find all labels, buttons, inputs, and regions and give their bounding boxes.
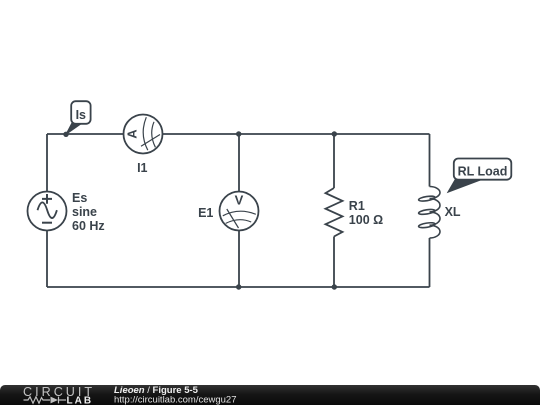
wire resistor branch lower <box>333 237 335 288</box>
junction node dot top resistor <box>332 131 337 136</box>
junction node dot bottom voltmeter <box>236 284 241 289</box>
sine wave inside source <box>38 202 57 218</box>
inductor XL coil <box>418 187 440 239</box>
wire voltmeter branch upper <box>238 134 240 192</box>
wire inductor branch lower <box>429 238 431 287</box>
junction node dot bottom resistor <box>332 284 337 289</box>
node dot for Is flag <box>63 132 68 137</box>
wire voltmeter branch lower <box>238 231 240 288</box>
wire top-right horizontal <box>163 133 430 135</box>
minus sign <box>42 222 52 224</box>
wire left branch upper <box>46 134 48 192</box>
plus sign <box>42 194 52 204</box>
wire left branch lower <box>46 231 48 288</box>
flag RL Load tail <box>448 179 483 192</box>
flag Is box <box>71 101 90 124</box>
junction node dot top voltmeter <box>236 131 241 136</box>
wire top-left horizontal <box>47 133 124 135</box>
voltmeter E1 <box>220 192 259 231</box>
flag RL Load box <box>454 159 512 180</box>
ammeter I1 <box>124 115 163 154</box>
svg-text:LAB: LAB <box>67 396 94 405</box>
footer bar <box>0 385 540 405</box>
flag Is tail <box>66 123 82 134</box>
resistor R1 (100 ohm) zigzag <box>326 188 343 237</box>
wire bottom horizontal <box>47 286 430 288</box>
svg-text:http://circuitlab.com/cewgu27: http://circuitlab.com/cewgu27 <box>114 394 237 405</box>
wire resistor branch upper <box>333 134 335 188</box>
logo waveform resistor+diode <box>24 397 67 404</box>
wire inductor branch upper <box>429 134 431 187</box>
voltage source Es (sine 60 Hz) <box>28 192 67 231</box>
